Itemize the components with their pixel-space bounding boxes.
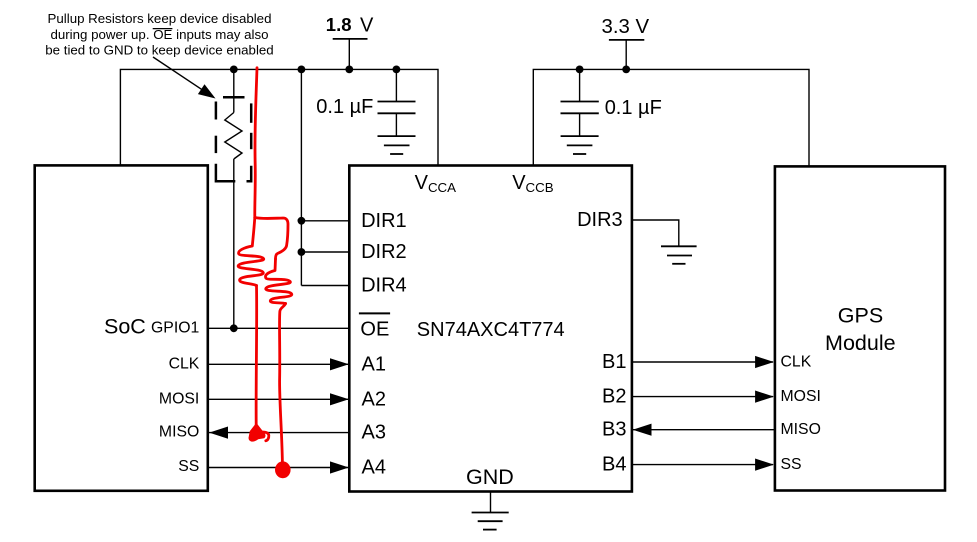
red resistor squiggle right bbox=[265, 259, 291, 304]
node: rail junction at C2 bbox=[576, 66, 584, 74]
node: rail junction at DIR column bbox=[298, 66, 306, 74]
node: DIR1 junction bbox=[298, 217, 306, 225]
svg-text:V: V bbox=[360, 14, 374, 36]
svg-text:be tied to GND to keep device: be tied to GND to keep device enabled bbox=[45, 43, 273, 58]
ground below C1 bbox=[378, 136, 416, 154]
wire: B2 to GPS MOSI bbox=[632, 396, 773, 398]
node: rail junction at C1 bbox=[393, 66, 401, 74]
svg-text:GPS: GPS bbox=[838, 304, 883, 328]
svg-text:OE: OE bbox=[360, 318, 389, 340]
red wire to SS bbox=[280, 304, 286, 463]
wire: DIR3 to ground bbox=[632, 220, 679, 246]
svg-text:DIR2: DIR2 bbox=[361, 241, 407, 263]
svg-text:B4: B4 bbox=[602, 454, 626, 476]
red hook on MISO arrowhead bbox=[259, 432, 269, 441]
svg-text:MOSI: MOSI bbox=[781, 388, 821, 405]
3.3 V supply label bbox=[602, 16, 650, 38]
svg-text:3.3 V: 3.3 V bbox=[602, 16, 650, 38]
svg-text:CLK: CLK bbox=[169, 355, 200, 372]
wire: B1 to GPS CLK bbox=[632, 361, 773, 363]
arrow into B3 bbox=[633, 424, 652, 436]
red wire to MISO bbox=[255, 286, 258, 426]
wire: 3.3V stub bbox=[625, 40, 627, 70]
svg-text:DIR4: DIR4 bbox=[361, 275, 407, 297]
red wire from 1.8V rail down bbox=[255, 68, 257, 218]
svg-text:B1: B1 bbox=[602, 351, 626, 373]
red branch wire to right resistor bbox=[255, 218, 288, 260]
arrow into A1 bbox=[330, 358, 349, 370]
wire: DIR2 stub bbox=[301, 251, 349, 253]
wire: DIR column vertical bbox=[300, 69, 302, 285]
svg-text:A1: A1 bbox=[362, 353, 386, 375]
arrow into A2 bbox=[330, 393, 349, 405]
ground at DIR3 bbox=[661, 246, 697, 263]
capacitor C2 0.1 uF bbox=[561, 69, 599, 136]
svg-text:GPIO1: GPIO1 bbox=[151, 320, 199, 337]
ground at GND pin bbox=[472, 513, 509, 530]
svg-text:Module: Module bbox=[825, 331, 896, 355]
arrow into A4 bbox=[330, 461, 349, 473]
wire: SS to A4 bbox=[208, 467, 348, 469]
svg-text:MISO: MISO bbox=[159, 424, 199, 441]
red junction dot on SS bbox=[275, 461, 291, 478]
svg-text:Pullup Resistors keep device d: Pullup Resistors keep device disabled bbox=[48, 11, 272, 26]
wire: GPIO1 to OE bbox=[208, 327, 349, 329]
wire: CLK to A1 bbox=[208, 363, 348, 365]
svg-text:CLK: CLK bbox=[781, 354, 812, 371]
svg-text:B2: B2 bbox=[602, 386, 626, 408]
ground below C2 bbox=[561, 136, 599, 154]
svg-text:SN74AXC4T774: SN74AXC4T774 bbox=[417, 319, 565, 341]
svg-text:SS: SS bbox=[781, 456, 802, 473]
svg-text:MISO: MISO bbox=[781, 421, 821, 438]
wire: B4 to GPS SS bbox=[632, 464, 773, 466]
svg-text:1.8: 1.8 bbox=[326, 14, 352, 35]
1.8 V supply label bbox=[326, 14, 374, 36]
GPS Module box bbox=[775, 166, 945, 490]
annotation arrow to dashed box bbox=[153, 57, 216, 99]
wire: 1.8V stub bbox=[348, 39, 350, 70]
node: rail junction at pullup resistor bbox=[230, 66, 238, 74]
3.3 V supply bar bbox=[609, 39, 644, 41]
wire: 1.8V rail bbox=[120, 69, 438, 165]
red arrowhead on MISO bbox=[249, 424, 264, 441]
IC U1 SN74AXC4T774 box bbox=[349, 166, 632, 492]
resistor R1 pullup (in dashed box) bbox=[225, 69, 242, 328]
GPS Module label bbox=[825, 304, 896, 356]
svg-text:GND: GND bbox=[466, 465, 514, 489]
dashed box around pullup resistor bbox=[216, 97, 251, 181]
svg-text:DIR3: DIR3 bbox=[577, 209, 623, 231]
svg-text:B3: B3 bbox=[602, 419, 626, 441]
note text annotation bbox=[45, 11, 273, 58]
svg-text:MOSI: MOSI bbox=[159, 390, 199, 407]
1.8 V supply bar bbox=[333, 38, 368, 40]
svg-text:SoC: SoC bbox=[104, 314, 146, 338]
SoC box bbox=[35, 165, 208, 490]
node: R1 to OE wire junction bbox=[230, 324, 238, 332]
svg-text:A4: A4 bbox=[362, 457, 386, 479]
wire: 3.3V rail bbox=[533, 69, 809, 166]
svg-text:SS: SS bbox=[178, 458, 199, 475]
svg-text:0.1 µF: 0.1 µF bbox=[605, 97, 662, 119]
wire: B3 to GPS MISO bbox=[633, 429, 775, 431]
svg-text:DIR1: DIR1 bbox=[361, 210, 407, 232]
wire: MOSI to A2 bbox=[208, 398, 348, 400]
svg-text:A3: A3 bbox=[362, 422, 386, 444]
arrow out of A3 into MISO bbox=[209, 427, 228, 439]
svg-text:0.1 µF: 0.1 µF bbox=[316, 96, 373, 118]
overline on OE in note bbox=[153, 28, 173, 30]
wire: DIR1 stub bbox=[301, 220, 349, 222]
arrow into GPS SS bbox=[755, 459, 774, 471]
wire: GND pin stub bbox=[490, 492, 492, 513]
arrow into GPS MOSI bbox=[755, 391, 774, 403]
node: DIR2 junction bbox=[298, 248, 306, 256]
wire: DIR4 stub bbox=[301, 285, 349, 287]
svg-text:A2: A2 bbox=[362, 388, 386, 410]
node: rail junction at 1.8V stub bbox=[345, 66, 353, 74]
wire: MISO to A3 bbox=[209, 432, 349, 434]
capacitor C1 0.1 uF bbox=[378, 69, 416, 136]
arrow into GPS CLK bbox=[755, 356, 774, 368]
node: rail junction at 3.3V stub bbox=[622, 66, 630, 74]
red resistor squiggle left bbox=[238, 218, 264, 286]
